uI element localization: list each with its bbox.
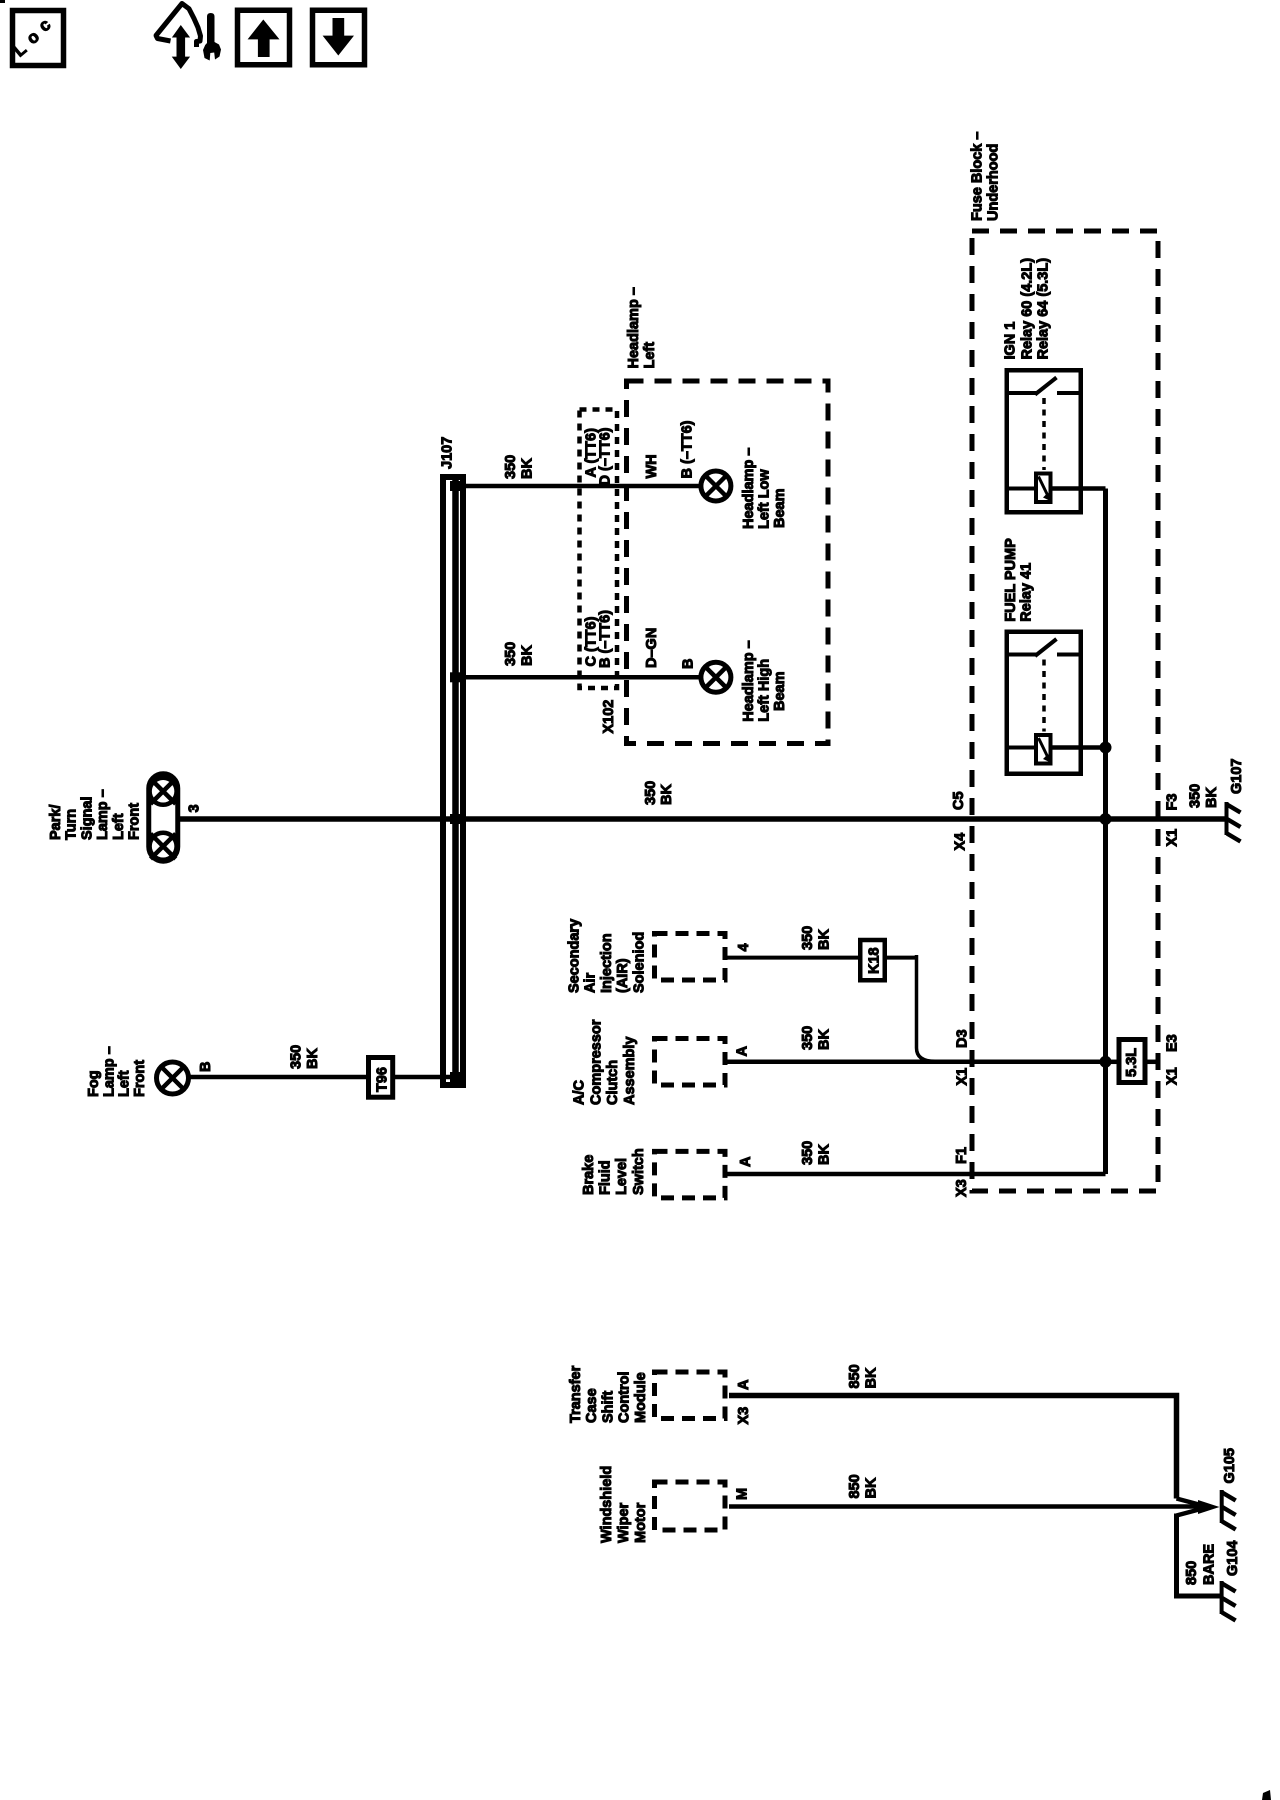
park turn signal lamp left front — [149, 774, 178, 862]
junction trunk to AC compressor wire — [1100, 1056, 1112, 1068]
bus junction main wire — [450, 814, 460, 824]
svg-text:Soleniod: Soleniod — [631, 932, 647, 993]
svg-text:Left: Left — [117, 1070, 133, 1097]
svg-text:Left: Left — [642, 342, 658, 369]
svg-text:Switch: Switch — [631, 1148, 647, 1195]
svg-text:X1: X1 — [1165, 829, 1181, 847]
svg-text:350: 350 — [800, 1141, 816, 1165]
svg-text:350: 350 — [800, 926, 816, 950]
svg-text:Headlamp –: Headlamp – — [741, 448, 757, 529]
svg-text:Secondary: Secondary — [567, 919, 583, 993]
wiper motor ground wire 850 BK — [729, 1504, 1199, 1509]
svg-text:Injection: Injection — [599, 933, 615, 993]
scroll up icon — [238, 10, 290, 65]
svg-text:850: 850 — [847, 1364, 863, 1388]
svg-text:A: A — [736, 1379, 752, 1390]
svg-text:Front: Front — [127, 803, 143, 840]
svg-text:Module: Module — [633, 1372, 649, 1423]
headlamp left dashed box — [627, 381, 829, 744]
svg-text:350: 350 — [503, 642, 519, 666]
fuse block underhood dashed box — [972, 231, 1158, 1191]
wire joint into ground arrow — [1177, 1499, 1200, 1505]
svg-text:Control: Control — [617, 1371, 633, 1423]
svg-text:BARE: BARE — [1202, 1544, 1218, 1585]
svg-text:Park/: Park/ — [48, 805, 64, 840]
svg-text:350: 350 — [1188, 784, 1204, 808]
svg-text:350: 350 — [800, 1026, 816, 1050]
svg-text:IGN 1: IGN 1 — [1003, 322, 1019, 360]
svg-text:350: 350 — [643, 781, 659, 805]
bus junction low beam wire — [450, 481, 460, 491]
svg-text:BK: BK — [816, 1029, 832, 1050]
svg-text:Lamp –: Lamp – — [95, 789, 111, 840]
svg-text:BK: BK — [816, 1144, 832, 1165]
svg-text:T96: T96 — [375, 1067, 391, 1092]
low beam ground wire 350 BK — [455, 484, 701, 489]
ground G105 — [1220, 1490, 1224, 1523]
svg-text:X102: X102 — [601, 700, 617, 734]
svg-text:G105: G105 — [1222, 1448, 1238, 1483]
headlamp left low beam bulb — [701, 471, 731, 501]
svg-text:B: B — [198, 1062, 214, 1072]
svg-text:BK: BK — [305, 1048, 321, 1069]
page number mark bottom right — [1262, 1790, 1271, 1800]
scroll down icon — [313, 10, 365, 65]
svg-text:Beam: Beam — [772, 672, 788, 712]
svg-text:Left: Left — [111, 813, 127, 840]
svg-text:G104: G104 — [1225, 1541, 1241, 1576]
AIR solenoid ground wire 350 BK — [728, 956, 859, 960]
svg-text:Fog: Fog — [86, 1070, 102, 1097]
svg-text:X3: X3 — [736, 1407, 752, 1425]
svg-text:350: 350 — [503, 455, 519, 479]
svg-text:B: B — [681, 659, 697, 669]
svg-text:D–GN: D–GN — [644, 628, 660, 668]
bus junction high beam wire — [450, 672, 460, 682]
svg-text:350: 350 — [289, 1045, 305, 1069]
bus junction fog wire — [450, 1072, 460, 1082]
ground G104 — [1220, 1581, 1224, 1614]
svg-text:BK: BK — [659, 784, 675, 805]
svg-text:F3: F3 — [1165, 794, 1181, 811]
ground trunk wire inside fuse block — [1103, 489, 1108, 1175]
secondary air injection solenoid dashed box — [655, 934, 726, 981]
svg-text:BK: BK — [864, 1477, 880, 1498]
svg-text:Fluid: Fluid — [598, 1160, 614, 1195]
svg-text:G107: G107 — [1229, 759, 1245, 794]
svg-text:Motor: Motor — [633, 1502, 649, 1543]
inline connector X102 dashed box — [580, 410, 618, 689]
svg-text:X1: X1 — [955, 1068, 971, 1086]
svg-text:BK: BK — [520, 645, 536, 666]
svg-text:C5: C5 — [951, 791, 967, 810]
bare ground strap 850 BARE — [1177, 1514, 1224, 1597]
svg-text:Wiper: Wiper — [616, 1502, 632, 1543]
svg-text:BK: BK — [864, 1367, 880, 1388]
LOC hyperlink icon — [10, 11, 64, 66]
svg-text:3: 3 — [187, 804, 203, 812]
svg-text:Left High: Left High — [757, 659, 773, 722]
transfer case ground wire 850 BK — [729, 1396, 1177, 1499]
svg-text:Headlamp –: Headlamp – — [626, 287, 642, 368]
svg-text:Compressor: Compressor — [588, 1019, 604, 1105]
svg-text:Level: Level — [614, 1158, 630, 1195]
svg-text:BK: BK — [816, 929, 832, 950]
svg-text:o: o — [23, 27, 43, 48]
headlamp left high beam bulb — [701, 662, 731, 692]
svg-text:Assembly: Assembly — [622, 1036, 638, 1105]
svg-text:M: M — [735, 1488, 751, 1500]
AC compressor clutch dashed box — [655, 1039, 726, 1086]
svg-text:Case: Case — [584, 1388, 600, 1423]
windshield wiper motor dashed box — [655, 1482, 726, 1530]
svg-text:Fuse Block –: Fuse Block – — [970, 132, 986, 221]
svg-text:Clutch: Clutch — [605, 1060, 621, 1105]
relay K1 IGN 1 Relay 60/64 — [1005, 370, 1106, 512]
svg-text:X4: X4 — [953, 833, 969, 851]
relay K2 FUEL PUMP Relay 41 — [1005, 632, 1106, 774]
AC compressor ground wire 350 BK — [728, 1060, 1106, 1065]
adjust up-down arrow and wrench icon — [156, 4, 221, 68]
svg-text:850: 850 — [847, 1474, 863, 1498]
svg-text:5.3L: 5.3L — [1124, 1048, 1140, 1077]
svg-text:(AIR): (AIR) — [615, 958, 631, 993]
svg-text:Front: Front — [132, 1060, 148, 1097]
svg-text:BK: BK — [520, 458, 536, 479]
svg-text:Relay 60 (4.2L): Relay 60 (4.2L) — [1019, 258, 1035, 360]
engine variant box 5.3L — [1106, 1060, 1120, 1065]
svg-text:Windshield: Windshield — [599, 1466, 615, 1543]
ground G107 — [1225, 802, 1229, 835]
junction trunk to main ground wire — [1100, 813, 1112, 825]
fog lamp ground wire 350 BK — [189, 1075, 369, 1080]
svg-text:F1: F1 — [954, 1147, 970, 1164]
svg-text:Relay 41: Relay 41 — [1019, 563, 1035, 622]
svg-text:850: 850 — [1184, 1561, 1200, 1585]
svg-text:4: 4 — [736, 943, 752, 951]
arrowhead to ground G105 — [1198, 1500, 1220, 1514]
splice K18 — [860, 940, 885, 980]
svg-text:c: c — [35, 15, 54, 36]
splice T96 — [369, 1058, 393, 1098]
svg-text:Transfer: Transfer — [568, 1365, 584, 1423]
transfer case shift control module dashed box — [655, 1372, 726, 1419]
page corner mark — [0, 0, 5, 3]
high beam ground wire 350 BK — [455, 675, 701, 680]
svg-text:A/C: A/C — [571, 1080, 587, 1106]
svg-text:Underhood: Underhood — [986, 144, 1002, 221]
svg-text:BK: BK — [1204, 787, 1220, 808]
svg-text:A: A — [738, 1156, 754, 1167]
svg-text:B (–TT6): B (–TT6) — [598, 610, 614, 668]
svg-text:WH: WH — [644, 454, 660, 478]
svg-text:X1: X1 — [1165, 1067, 1181, 1085]
svg-text:FUEL PUMP: FUEL PUMP — [1003, 538, 1019, 622]
svg-text:E3: E3 — [1165, 1034, 1181, 1052]
svg-text:B (–TT6): B (–TT6) — [680, 420, 696, 478]
svg-text:D3: D3 — [955, 1029, 971, 1048]
splice pack J107 bus — [443, 477, 463, 1085]
svg-text:D (–TT6): D (–TT6) — [598, 427, 614, 485]
svg-text:Left Low: Left Low — [757, 469, 773, 529]
svg-text:Brake: Brake — [581, 1155, 597, 1195]
svg-text:Relay 64 (5.3L): Relay 64 (5.3L) — [1036, 258, 1052, 360]
junction fuel pump relay to trunk — [1100, 742, 1112, 754]
svg-text:Air: Air — [583, 973, 599, 994]
svg-text:Signal: Signal — [79, 796, 95, 840]
brake fluid level switch dashed box — [655, 1151, 726, 1198]
main ground wire 350 BK — [180, 816, 1227, 822]
fog lamp left front — [157, 1062, 189, 1094]
wire joint down to bare strap — [1177, 1510, 1200, 1516]
svg-text:Beam: Beam — [772, 489, 788, 529]
svg-text:Headlamp –: Headlamp – — [741, 640, 757, 721]
svg-text:Shift: Shift — [600, 1391, 616, 1423]
svg-text:J107: J107 — [440, 437, 456, 469]
svg-text:Lamp –: Lamp – — [101, 1046, 117, 1097]
svg-text:A: A — [735, 1046, 751, 1057]
svg-text:X3: X3 — [954, 1179, 970, 1197]
brake fluid ground wire 350 BK — [728, 1172, 1106, 1177]
svg-text:Turn: Turn — [64, 809, 80, 840]
svg-text:K18: K18 — [867, 947, 883, 974]
